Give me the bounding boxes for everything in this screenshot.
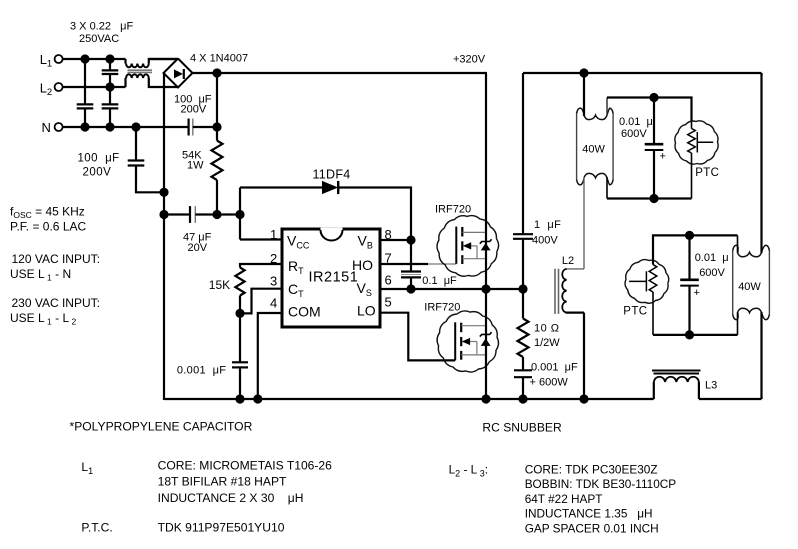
node DC- 100uF junction bbox=[159, 188, 168, 197]
PTC1 zigzag bbox=[688, 129, 696, 154]
capacitor 47uF plates bbox=[189, 206, 191, 223]
U1 notch bbox=[321, 228, 343, 241]
LP2 bottom-right lead bbox=[760, 312, 762, 399]
wire 47uF line right bbox=[195, 213, 240, 215]
capacitor 100uF bottom wire bbox=[136, 166, 164, 192]
Q2 channel dash 3 bbox=[460, 351, 462, 360]
diode 11DF4 triangle bbox=[322, 181, 338, 194]
wire DC- corner bbox=[163, 398, 165, 400]
Q1 body diode triangle bbox=[481, 243, 491, 251]
wire bottom rail bbox=[164, 398, 654, 400]
PTC2 lead bottom bbox=[652, 292, 654, 335]
svg-text:1/2W: 1/2W bbox=[534, 337, 560, 349]
Q2 channel dash 2 bbox=[460, 337, 462, 346]
svg-text:CORE: MICROMETAIS T106-26: CORE: MICROMETAIS T106-26 bbox=[158, 459, 333, 473]
L2 core bbox=[554, 269, 556, 314]
svg-text:IR2151: IR2151 bbox=[309, 270, 359, 286]
PTC1 lead bottom bbox=[691, 153, 693, 199]
svg-text:0.01 μ: 0.01 μ bbox=[619, 116, 653, 128]
L2 top lead bbox=[566, 268, 585, 270]
node L1-C2 bbox=[105, 54, 114, 63]
capacitor 0.001uF wire top bbox=[239, 313, 241, 361]
wire pin6 VS line bbox=[380, 288, 523, 290]
node Vcc rail junction bbox=[235, 210, 244, 219]
capacitor 0.01uF-2 wire top bbox=[688, 235, 690, 278]
wire pin3 CT bbox=[240, 289, 282, 314]
node COM bottom rail bbox=[253, 394, 262, 403]
svg-text:600V: 600V bbox=[621, 128, 647, 140]
capacitor 0.001uF plates bbox=[232, 361, 248, 363]
svg-text:230 VAC INPUT:: 230 VAC INPUT: bbox=[12, 296, 100, 310]
svg-text:120 VAC INPUT:: 120 VAC INPUT: bbox=[12, 252, 100, 266]
capacitor 1uF plates bbox=[513, 233, 533, 235]
LP2 bottom-left lead bbox=[737, 312, 739, 335]
node N-C3 bbox=[131, 122, 140, 131]
wire N line bbox=[63, 126, 189, 128]
svg-text:L3: L3 bbox=[705, 380, 717, 392]
wire L1 line bbox=[63, 58, 126, 60]
svg-text:3: 3 bbox=[270, 274, 277, 289]
node 54K bottom bbox=[212, 210, 221, 219]
Q1 gate bar bbox=[455, 227, 457, 264]
wire pin5 LO bbox=[380, 313, 455, 361]
capacitor 100uF bottom plates bbox=[128, 159, 145, 161]
capacitor 1uF wire bottom bbox=[522, 240, 524, 289]
svg-text:0.001 μF: 0.001 μF bbox=[531, 362, 578, 374]
PTC1 mark bar bbox=[696, 132, 698, 153]
wire bridge top vertex stub bbox=[149, 58, 178, 60]
svg-text:250VAC: 250VAC bbox=[79, 33, 119, 45]
capacitor 0.01uF-2 plates bbox=[680, 278, 699, 281]
capacitor snubber plates bbox=[514, 369, 532, 371]
terminal L1 bbox=[55, 55, 63, 63]
node L1-C1 bbox=[80, 54, 89, 63]
Q2 drain vertical bbox=[485, 289, 487, 399]
svg-text:1 μF: 1 μF bbox=[534, 219, 561, 231]
svg-text:+320V: +320V bbox=[453, 54, 486, 66]
wire bottom rail right bbox=[699, 398, 762, 400]
Q2 body diode bar bbox=[480, 332, 492, 336]
capacitor 100uF top plates bbox=[188, 119, 190, 136]
node VS 1uF junction bbox=[518, 284, 527, 293]
svg-text:0.1 μF: 0.1 μF bbox=[422, 275, 457, 287]
svg-text:N: N bbox=[42, 120, 51, 135]
capacitor 0.1uF plates bbox=[401, 270, 421, 272]
wire DC- vertical bbox=[163, 73, 165, 399]
svg-text:RC SNUBBER: RC SNUBBER bbox=[482, 421, 562, 435]
svg-text:TDK 911P97E501YU10: TDK 911P97E501YU10 bbox=[158, 521, 285, 535]
resistor 54K lead bottom bbox=[216, 180, 218, 215]
capacitor C1a 0.22uF L1-N wire bbox=[84, 59, 86, 104]
choke L1 top lead bbox=[124, 59, 126, 64]
Q2 envelope circle bbox=[437, 311, 498, 372]
svg-text:IRF720: IRF720 bbox=[435, 204, 471, 216]
svg-text:1W: 1W bbox=[187, 160, 204, 172]
svg-text:P.T.C.: P.T.C. bbox=[81, 521, 112, 535]
L3 hump right bbox=[698, 382, 700, 399]
wire 47uF line left bbox=[164, 213, 190, 215]
LP2 top-right lead bbox=[760, 73, 762, 253]
svg-text:40W: 40W bbox=[582, 144, 605, 156]
LP2 top-left lead bbox=[737, 235, 739, 253]
node L2 rail bbox=[579, 394, 588, 403]
svg-text:0.001 μF: 0.001 μF bbox=[177, 365, 226, 377]
capacitor C1a plates bbox=[77, 103, 94, 105]
capacitor C2a plates bbox=[102, 69, 119, 71]
PTC1 mark line bbox=[697, 141, 713, 143]
node cap2 top bbox=[685, 231, 694, 240]
capacitor C2a wire bbox=[109, 75, 111, 87]
capacitor 0.001uF wire bottom bbox=[239, 368, 241, 399]
Q2 drain link bbox=[461, 325, 486, 327]
capacitor 0.01uF-1 wire bottom bbox=[653, 151, 655, 199]
svg-text:*POLYPROPYLENE CAPACITOR: *POLYPROPYLENE CAPACITOR bbox=[70, 420, 253, 434]
node rail lamp1 feed bbox=[579, 68, 588, 77]
capacitor C2b wire bbox=[109, 109, 111, 127]
choke L1 top lead right bbox=[149, 59, 178, 64]
Q1 channel dash 1 bbox=[461, 227, 463, 237]
wire rail corner to Q1 bbox=[485, 72, 487, 74]
wire DC+ to rail bbox=[193, 72, 487, 74]
capacitor C2b 0.22uF L2-N wire bbox=[109, 87, 111, 104]
node cap2 bottom bbox=[685, 330, 694, 339]
svg-text:GAP SPACER 0.01 INCH: GAP SPACER 0.01 INCH bbox=[525, 521, 659, 535]
wire pin1 Vcc bbox=[240, 238, 282, 240]
svg-text:+: + bbox=[694, 287, 700, 299]
svg-text:10 Ω: 10 Ω bbox=[534, 323, 560, 335]
svg-text:64T #22 HAPT: 64T #22 HAPT bbox=[525, 492, 603, 506]
bridge inner diode triangle bbox=[174, 69, 183, 78]
wire bootstrap diode line bbox=[240, 186, 322, 188]
wire pin2 RT bbox=[240, 264, 282, 268]
Q2 channel dash 1 bbox=[460, 323, 462, 333]
resistor 15K body bbox=[235, 268, 244, 296]
Q2 source link bbox=[461, 354, 486, 356]
svg-text:4: 4 bbox=[270, 296, 277, 311]
svg-text:INDUCTANCE 1.35 μH: INDUCTANCE 1.35 μH bbox=[525, 507, 653, 521]
wire lamp1 bottom bbox=[607, 197, 692, 199]
LP1 top-right lead bbox=[606, 98, 608, 116]
Q1 body link bbox=[470, 245, 478, 247]
svg-text:1: 1 bbox=[270, 227, 277, 242]
bridge rectifier 4 X 1N4007 diamond bbox=[164, 59, 193, 88]
svg-text:15K: 15K bbox=[209, 278, 230, 292]
capacitor snubber wire bbox=[522, 378, 524, 399]
svg-text:6: 6 bbox=[385, 273, 392, 288]
wire rail right up bbox=[760, 397, 762, 399]
node VS MOSFET junction bbox=[481, 284, 490, 293]
Q2 body arrow bbox=[462, 338, 470, 345]
wire HO gray segment bbox=[428, 263, 456, 265]
node 0.1uF VS junction bbox=[406, 284, 415, 293]
svg-text:P.F. = 0.6 LAC: P.F. = 0.6 LAC bbox=[10, 220, 86, 234]
terminal N bbox=[55, 123, 63, 131]
wire pin8 VB bbox=[380, 239, 411, 241]
capacitor 0.01uF-1 plates bbox=[645, 143, 664, 146]
capacitor 100uF bottom wire top bbox=[135, 127, 137, 160]
svg-text:3 X 0.22 μF: 3 X 0.22 μF bbox=[70, 21, 133, 33]
svg-text:40W: 40W bbox=[738, 281, 761, 293]
thermistor PTC2 circle bbox=[625, 260, 669, 304]
terminal L2 bbox=[55, 83, 63, 91]
Q2 body diode triangle bbox=[481, 338, 491, 346]
wire rail right drop bbox=[760, 73, 762, 76]
Q2 body link bbox=[468, 341, 477, 343]
svg-text:200V: 200V bbox=[83, 167, 112, 179]
resistor 10R lead bottom bbox=[522, 357, 524, 370]
capacitor 100uF top wire bbox=[193, 126, 217, 128]
L2 to rail bbox=[583, 313, 585, 399]
Q1 channel dash 2 bbox=[461, 241, 463, 250]
svg-text:USE L 1 - L 2: USE L 1 - L 2 bbox=[10, 311, 76, 327]
PTC2 mark bar bbox=[645, 271, 647, 291]
wire output rail bbox=[523, 72, 762, 74]
svg-text:0.01 μ: 0.01 μ bbox=[695, 252, 729, 264]
Q1 body arrow bbox=[463, 242, 471, 249]
node Q2 source rail bbox=[481, 394, 490, 403]
svg-text:PTC: PTC bbox=[695, 167, 719, 179]
choke L1 bottom winding lead bbox=[124, 78, 126, 87]
capacitor C2b plates bbox=[102, 103, 119, 105]
node cap1 top bbox=[649, 93, 658, 102]
inductor L2 winding bbox=[562, 269, 566, 313]
op-amp U1 IR2151 body bbox=[282, 229, 380, 327]
svg-text:CORE: TDK PC30EE30Z: CORE: TDK PC30EE30Z bbox=[525, 463, 658, 477]
capacitor 0.1uF wire top bbox=[410, 240, 412, 271]
wire lamp1 top bbox=[607, 98, 692, 122]
svg-text:+: + bbox=[660, 151, 666, 163]
svg-text:600V: 600V bbox=[699, 267, 725, 279]
L2 bottom lead bbox=[566, 312, 585, 314]
wire lamp2 bottom bbox=[653, 334, 738, 336]
svg-text:BOBBIN: TDK BE30-1110CP: BOBBIN: TDK BE30-1110CP bbox=[525, 477, 677, 491]
node CT junction bbox=[235, 309, 244, 318]
wire lamp2 top bbox=[653, 235, 738, 264]
node VB junction bbox=[406, 235, 415, 244]
Q1 source link bbox=[462, 258, 486, 260]
svg-text:IRF720: IRF720 bbox=[424, 302, 460, 314]
svg-text:200V: 200V bbox=[181, 104, 207, 116]
wire DC+ drop bbox=[216, 73, 218, 127]
svg-text:4 X 1N4007: 4 X 1N4007 bbox=[190, 53, 248, 65]
Q1 channel dash 3 bbox=[461, 255, 463, 264]
resistor 54K lead top bbox=[216, 127, 218, 141]
wire L2 line bbox=[63, 86, 126, 88]
capacitor C1a wire bbox=[84, 109, 86, 127]
capacitor 0.01uF-2 wire bottom bbox=[688, 286, 690, 335]
wire pin7 HO bbox=[380, 263, 428, 265]
LP1 bottom-right lead bbox=[606, 177, 608, 198]
Q1 drain link bbox=[462, 231, 486, 233]
inductor L3 hump bbox=[653, 382, 655, 399]
svg-text:INDUCTANCE 2 X 30 μH: INDUCTANCE 2 X 30 μH bbox=[158, 491, 304, 505]
wire Vcc vertical bbox=[239, 188, 241, 240]
thermistor PTC1 circle bbox=[675, 121, 718, 164]
Q1 drain vertical bbox=[485, 73, 487, 289]
lamp LP1 40W tube bbox=[576, 114, 578, 180]
node cap1 bottom bbox=[649, 194, 658, 203]
capacitor C2a 0.22uF L1-L2 wire bbox=[109, 59, 111, 70]
inductor L3 winding bbox=[654, 377, 699, 382]
svg-text:L2: L2 bbox=[562, 255, 574, 267]
Q2 gate bar bbox=[454, 322, 456, 360]
LP1 bottom-left lead bbox=[583, 177, 585, 269]
svg-text:PTC: PTC bbox=[623, 306, 647, 318]
choke L1 core bbox=[128, 69, 153, 71]
node DC- 47uF junction bbox=[159, 210, 168, 219]
svg-text:400V: 400V bbox=[532, 235, 558, 247]
node N-C1 bbox=[80, 122, 89, 131]
svg-text:18T BIFILAR #18 HAPT: 18T BIFILAR #18 HAPT bbox=[158, 475, 287, 489]
node 0.001uF bottom rail bbox=[235, 394, 244, 403]
PTC1 lead top bbox=[691, 122, 693, 129]
choke L1 bottom lead right bbox=[149, 78, 178, 87]
resistor 10R body bbox=[518, 319, 529, 358]
svg-text:5: 5 bbox=[385, 295, 392, 310]
svg-text:LO: LO bbox=[357, 303, 376, 319]
capacitor 1uF wire top bbox=[522, 73, 524, 233]
choke L1 top winding bbox=[126, 64, 149, 68]
Q1 envelope circle bbox=[437, 216, 499, 277]
Q1 body diode bar bbox=[480, 239, 492, 243]
svg-text:11DF4: 11DF4 bbox=[312, 168, 350, 182]
svg-text:USE L 1 - N: USE L 1 - N bbox=[10, 267, 71, 283]
capacitor 0.01uF-1 wire top bbox=[653, 98, 655, 144]
PTC2 zigzag bbox=[649, 265, 657, 293]
node snubber rail bbox=[518, 394, 527, 403]
capacitor 0.1uF wire bottom bbox=[410, 278, 412, 289]
PTC2 mark line bbox=[629, 280, 646, 282]
LP1 top-left lead bbox=[583, 73, 585, 116]
wire bootstrap diode to VB bbox=[338, 188, 411, 241]
node L2-C2 bbox=[105, 82, 114, 91]
svg-text:100 μF: 100 μF bbox=[78, 153, 120, 165]
L3 core bbox=[652, 370, 701, 372]
node N-C2 bbox=[105, 122, 114, 131]
svg-text:COM: COM bbox=[288, 304, 321, 320]
node N-line DC+ cap junction bbox=[212, 122, 221, 131]
resistor 10R lead top bbox=[522, 289, 524, 319]
node DC+ junction bbox=[212, 68, 221, 77]
svg-text:+ 600W: + 600W bbox=[530, 377, 569, 389]
wire pin4 COM bbox=[258, 313, 282, 399]
svg-text:20V: 20V bbox=[188, 242, 208, 254]
diode 11DF4 bar bbox=[337, 181, 339, 194]
lamp LP2 40W tube bbox=[732, 251, 734, 315]
bridge inner diode bar bbox=[183, 69, 185, 79]
resistor 15K lead bbox=[239, 296, 241, 314]
choke L1 bottom winding bbox=[126, 74, 149, 78]
resistor 54K body bbox=[212, 141, 223, 180]
